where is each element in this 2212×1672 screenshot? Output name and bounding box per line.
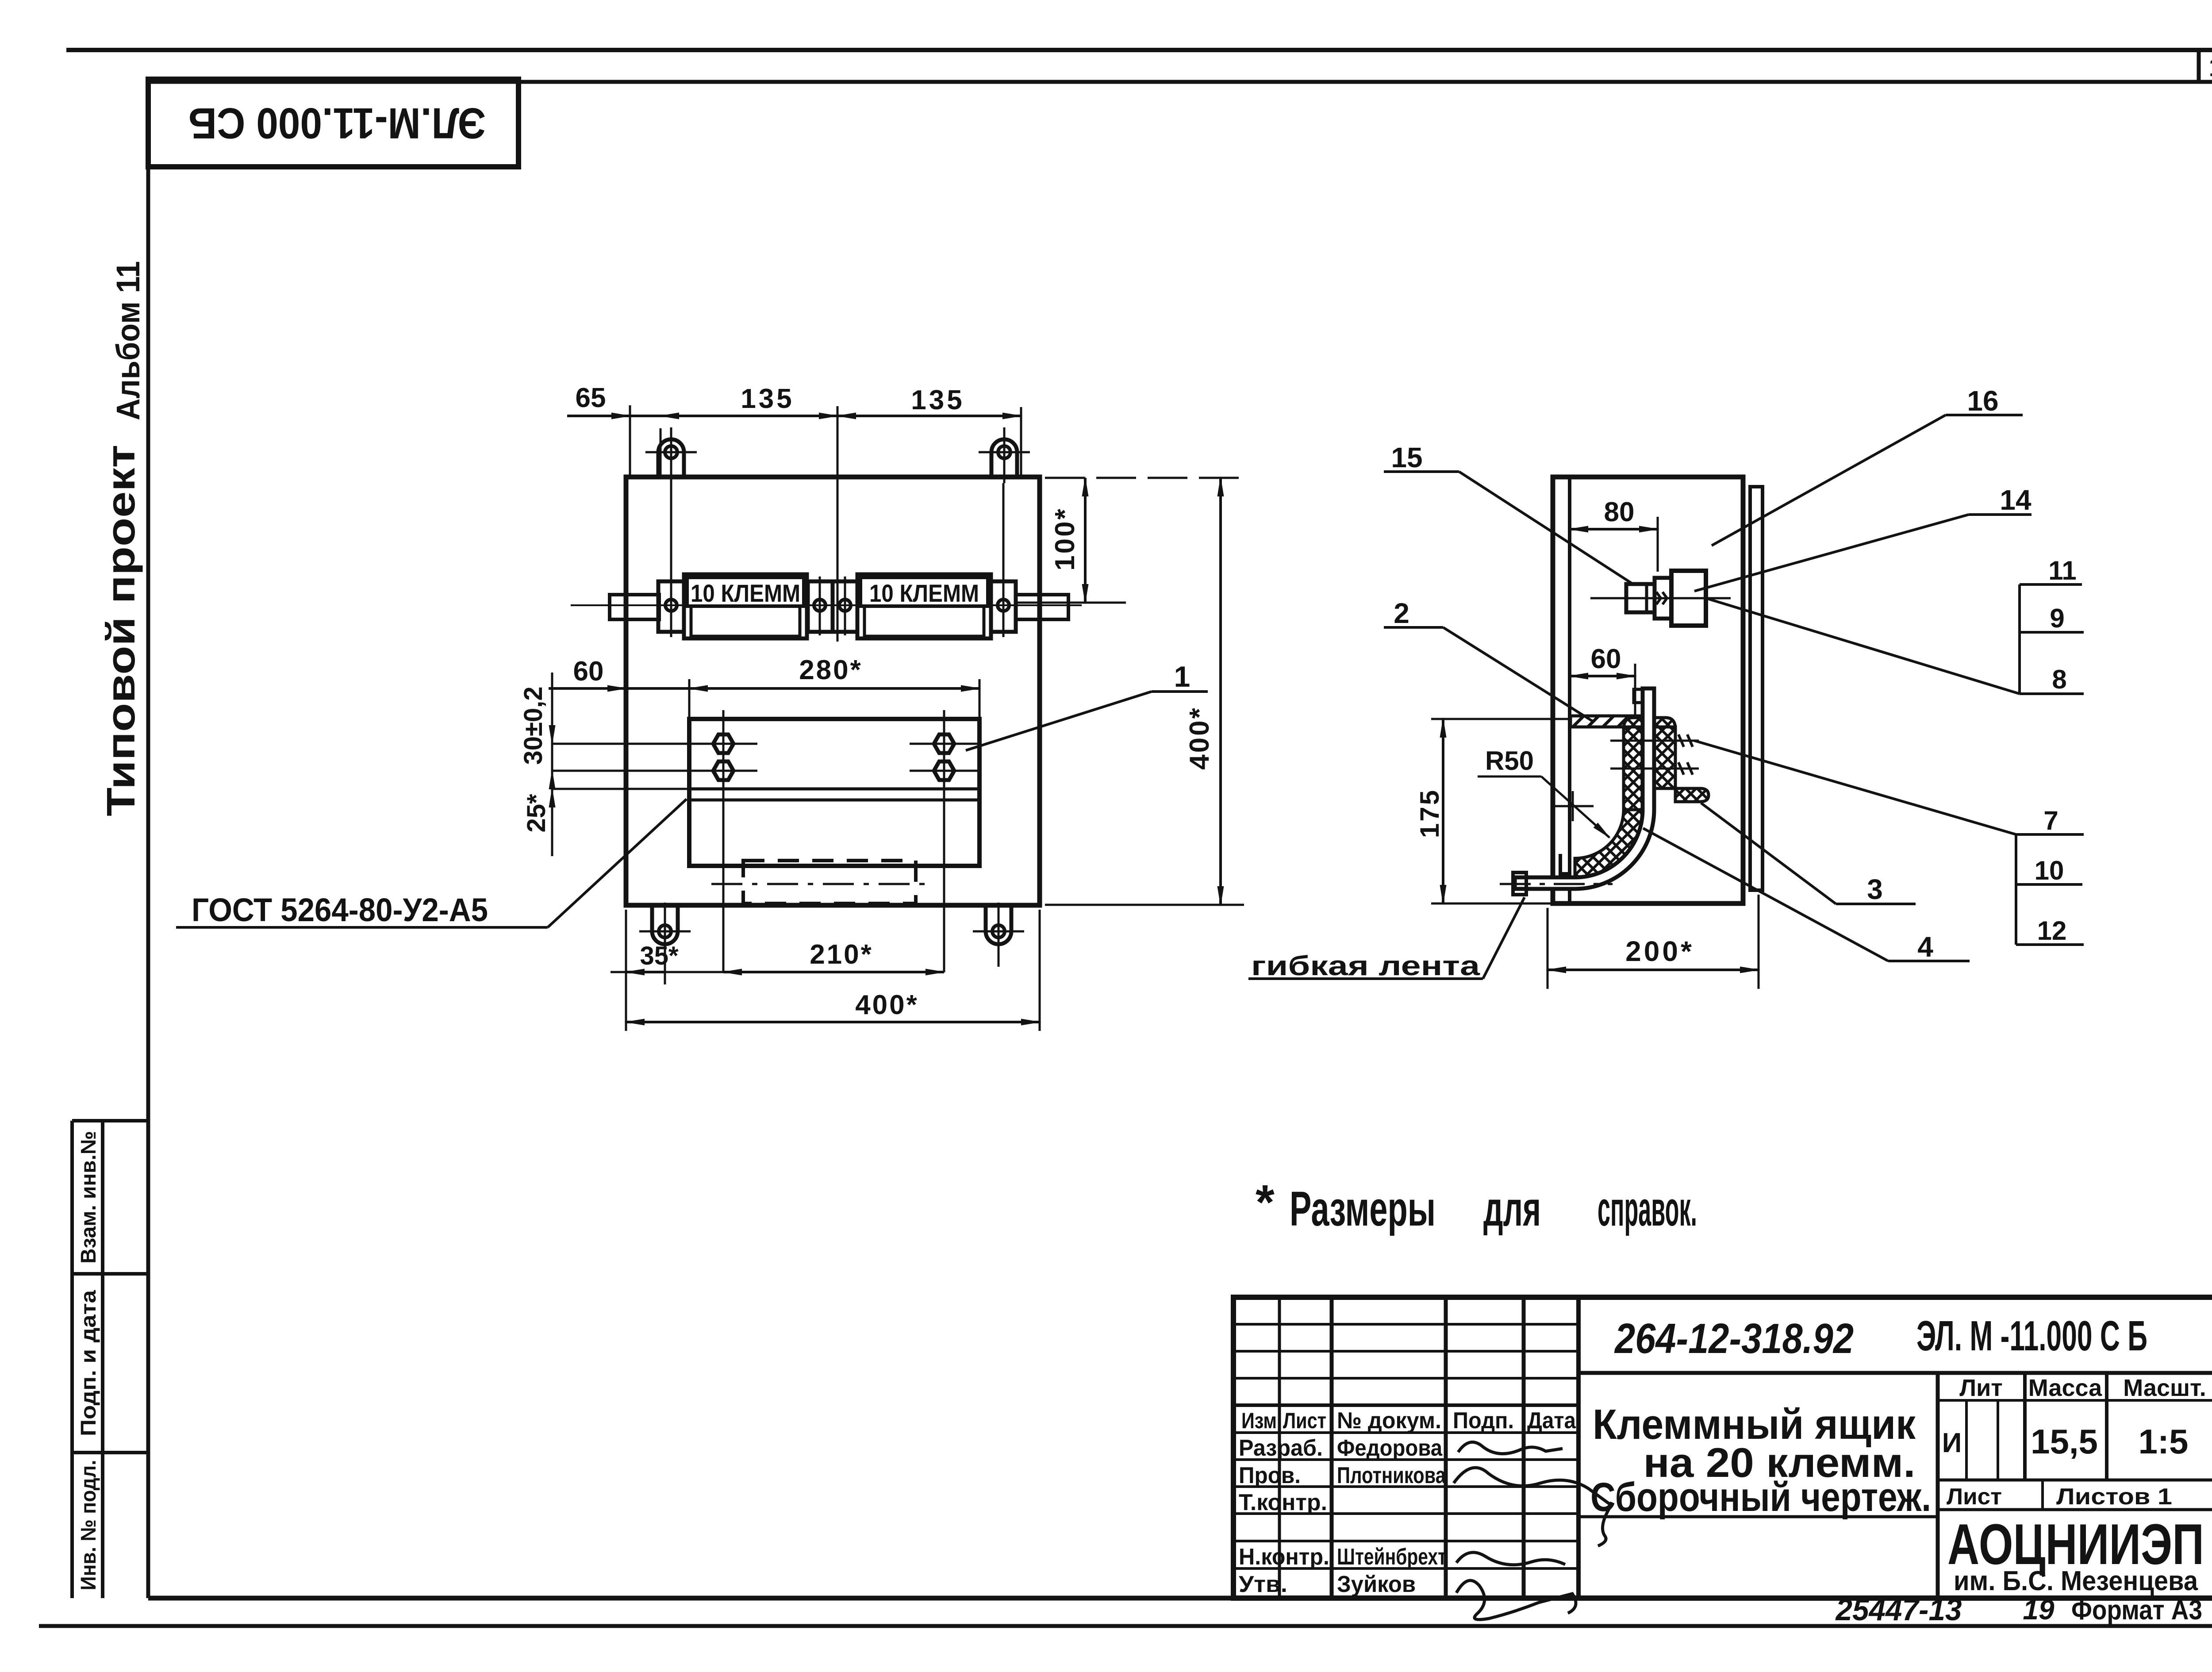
svg-text:Масшт.: Масшт. [2123, 1375, 2206, 1401]
svg-text:Инв. № подл.: Инв. № подл. [77, 1460, 100, 1591]
svg-text:10: 10 [2035, 856, 2064, 885]
svg-text:Листов 1: Листов 1 [2056, 1484, 2172, 1510]
svg-text:210*: 210* [810, 939, 873, 970]
svg-text:Дата: Дата [1527, 1408, 1576, 1434]
svg-text:19: 19 [2023, 1594, 2055, 1626]
svg-text:Штейнбрехт: Штейнбрехт [1337, 1544, 1447, 1570]
svg-text:ГОСТ 5264-80-У2-А5: ГОСТ 5264-80-У2-А5 [192, 892, 488, 928]
svg-text:Федорова: Федорова [1337, 1435, 1443, 1461]
svg-text:65: 65 [576, 383, 606, 413]
svg-text:Н.контр.: Н.контр. [1239, 1544, 1329, 1570]
svg-text:1: 1 [1174, 660, 1190, 693]
svg-text:Лист: Лист [1283, 1408, 1326, 1433]
svg-text:60: 60 [573, 656, 604, 687]
svg-text:1:5: 1:5 [2139, 1422, 2189, 1461]
svg-text:2: 2 [1394, 597, 1409, 629]
svg-text:Подп. и дата: Подп. и дата [77, 1290, 100, 1436]
svg-text:Утв.: Утв. [1239, 1572, 1287, 1597]
svg-text:Плотникова: Плотникова [1337, 1463, 1446, 1488]
svg-text:15,5: 15,5 [2031, 1422, 2098, 1461]
svg-text:для: для [1483, 1182, 1541, 1236]
svg-text:135: 135 [741, 384, 794, 414]
svg-text:R50: R50 [1485, 746, 1534, 776]
svg-text:10 КЛЕММ: 10 КЛЕММ [691, 579, 800, 607]
svg-text:100*: 100* [1050, 507, 1080, 571]
svg-text:7: 7 [2043, 806, 2058, 835]
svg-text:280*: 280* [799, 655, 863, 685]
svg-text:15: 15 [1391, 442, 1422, 473]
svg-text:400*: 400* [1184, 706, 1215, 770]
svg-text:гибкая лента: гибкая лента [1251, 951, 1480, 981]
svg-text:35*: 35* [640, 942, 679, 970]
svg-text:Размеры: Размеры [1290, 1182, 1436, 1236]
svg-text:справок.: справок. [1598, 1182, 1697, 1236]
svg-text:Сборочный чертеж.: Сборочный чертеж. [1590, 1475, 1931, 1520]
svg-text:175: 175 [1415, 788, 1444, 838]
svg-text:Подп.: Подп. [1453, 1408, 1514, 1434]
svg-text:*: * [1256, 1175, 1275, 1230]
svg-text:Разраб.: Разраб. [1239, 1435, 1323, 1461]
svg-text:10 КЛЕММ: 10 КЛЕММ [869, 579, 979, 607]
svg-text:25447-13: 25447-13 [1835, 1592, 1962, 1627]
svg-text:Лист: Лист [1947, 1484, 2002, 1510]
svg-text:ЭЛ. М -11.000 С Б: ЭЛ. М -11.000 С Б [1916, 1312, 2147, 1360]
svg-text:Масса: Масса [2028, 1375, 2102, 1401]
svg-text:ЭЛ.М-11.000 СБ: ЭЛ.М-11.000 СБ [188, 99, 486, 148]
svg-text:8: 8 [2052, 665, 2066, 694]
svg-text:18: 18 [2209, 53, 2212, 82]
svg-text:9: 9 [2050, 603, 2064, 633]
svg-text:14: 14 [2000, 484, 2032, 516]
svg-text:И: И [1942, 1428, 1962, 1458]
svg-text:3: 3 [1867, 873, 1883, 905]
svg-text:им. Б.С. Мезенцева: им. Б.С. Мезенцева [1954, 1566, 2198, 1596]
svg-text:16: 16 [1967, 385, 1998, 417]
svg-text:400*: 400* [855, 990, 919, 1020]
svg-text:4: 4 [1917, 931, 1933, 963]
svg-text:Взам. инв.№: Взам. инв.№ [77, 1131, 100, 1264]
svg-text:60: 60 [1591, 644, 1621, 674]
svg-text:Формат А3: Формат А3 [2071, 1595, 2202, 1626]
svg-text:Зуйков: Зуйков [1337, 1572, 1416, 1597]
svg-text:200*: 200* [1625, 935, 1694, 967]
svg-text:Альбом 11: Альбом 11 [110, 261, 146, 420]
svg-text:11: 11 [2048, 556, 2076, 585]
svg-text:25*: 25* [522, 794, 551, 833]
svg-text:Пров.: Пров. [1239, 1463, 1301, 1488]
svg-text:80: 80 [1604, 497, 1635, 527]
svg-text:Лит: Лит [1959, 1375, 2003, 1401]
svg-text:30±0,2: 30±0,2 [519, 687, 548, 765]
svg-text:264-12-318.92: 264-12-318.92 [1614, 1315, 1854, 1362]
svg-text:Т.контр.: Т.контр. [1239, 1490, 1327, 1515]
svg-text:Типовой проект: Типовой проект [99, 445, 143, 816]
svg-text:135: 135 [911, 385, 964, 415]
svg-text:12: 12 [2037, 916, 2067, 946]
svg-text:Изм: Изм [1241, 1408, 1277, 1433]
svg-text:№ докум.: № докум. [1337, 1408, 1441, 1434]
